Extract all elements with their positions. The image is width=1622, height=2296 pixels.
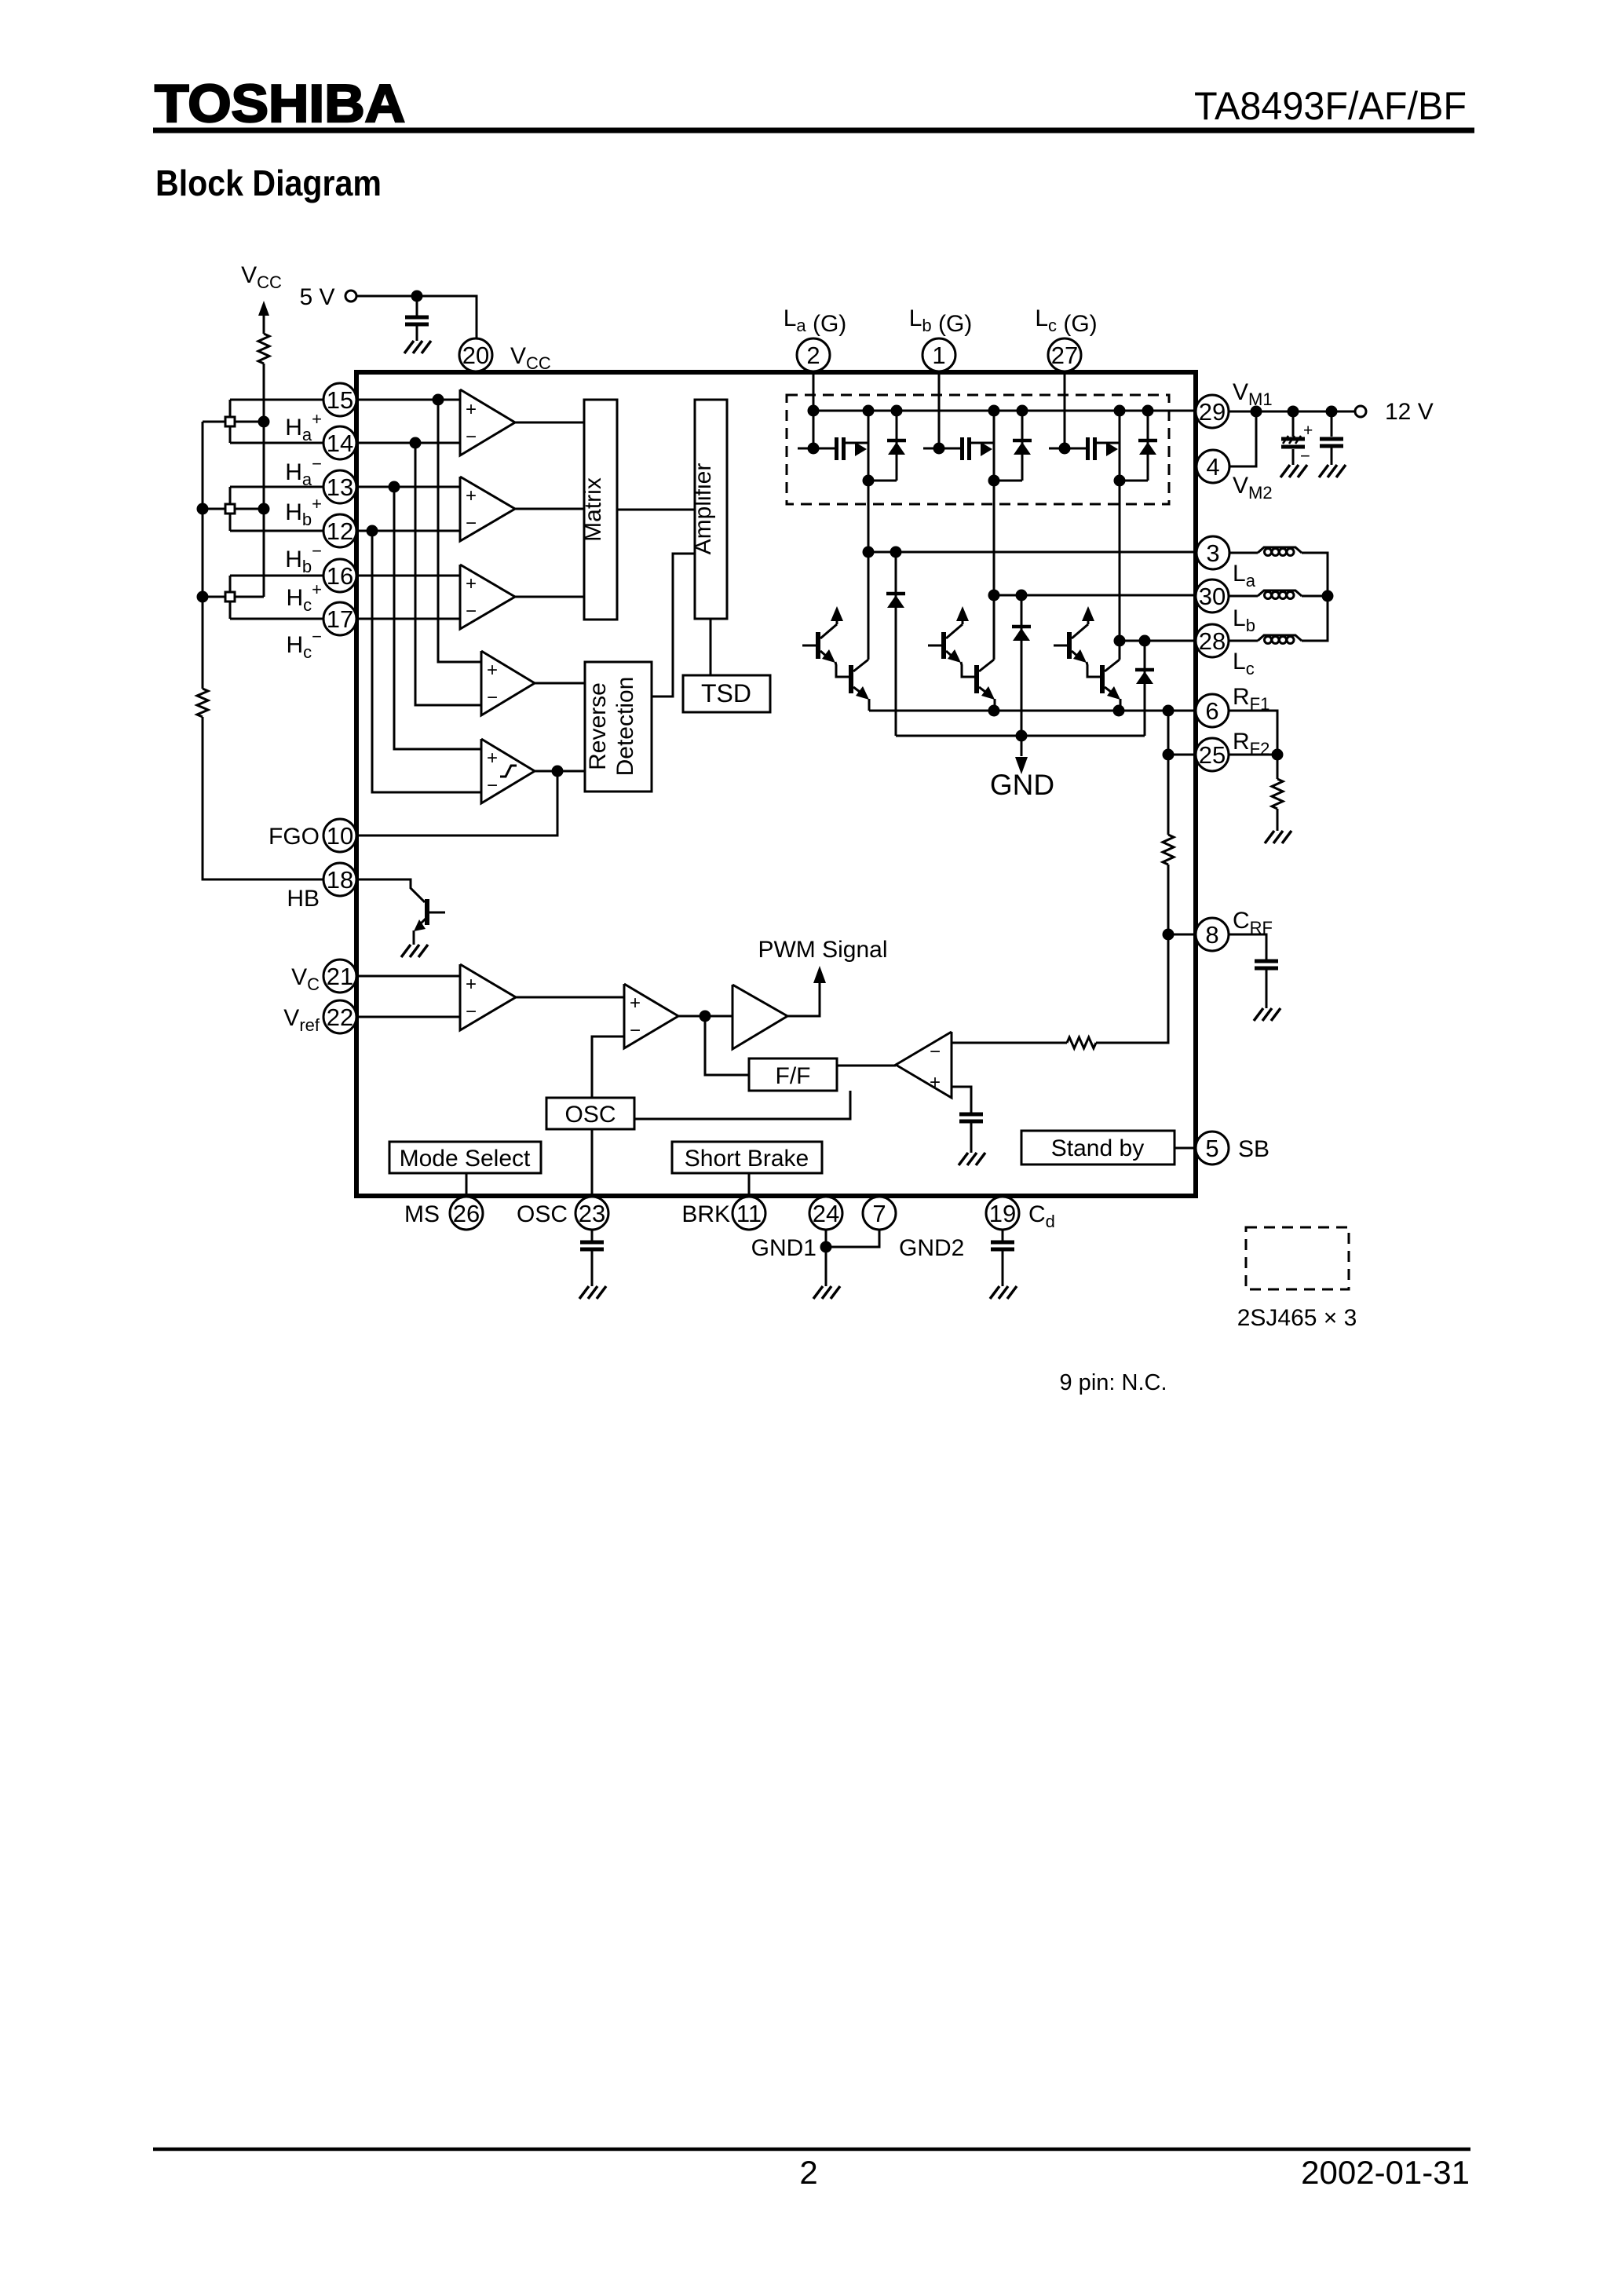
block Stand by [1021,1131,1174,1164]
diode D6 (Lc low-side) [1144,641,1146,736]
node dot Lc drain [1114,635,1126,647]
svg-text:FGO: FGO [269,824,320,850]
svg-text:−: − [930,1041,941,1062]
svg-text:Matrix: Matrix [580,477,606,542]
pin 30 [1196,579,1229,612]
node dot Lb diode [1016,590,1028,601]
svg-text:14: 14 [327,430,353,457]
svg-text:2: 2 [799,2154,817,2191]
terminal 12V [1355,406,1366,417]
wire V1 feed to comparator A4 + [438,400,481,662]
wire VCC bias vertical [263,422,265,597]
svg-text:20: 20 [462,342,489,369]
wire Matrix to Amplifier [617,509,695,511]
op-amp A1 (Hall comparator a) [460,389,515,455]
block Reverse Detection [585,662,652,792]
svg-text:HB: HB [287,886,320,912]
wire QA drain to node La [868,481,870,552]
svg-text:18: 18 [327,866,353,894]
wire Hc to left bias line [203,596,225,598]
diode D5 (Lb low-side) [1021,595,1023,736]
pin 27 [1048,338,1081,371]
inductor Lb (motor coil) [1258,590,1302,596]
svg-text:23: 23 [579,1200,605,1227]
diode D4 (La low-side) [895,552,897,736]
external MOSFET array dashed outline [787,395,1169,504]
wire V4 feed to comparator A5 - [372,531,481,792]
svg-text:+: + [487,748,498,769]
svg-text:MS: MS [404,1201,440,1227]
pin 19 [986,1197,1019,1230]
svg-text:Block Diagram: Block Diagram [155,163,382,203]
block OSC (oscillator) [546,1098,634,1129]
wire Ha to VCC bias line [235,421,264,423]
wire pin22 to error amp - [359,1016,460,1018]
wire OSC to pin 23 [591,1129,594,1197]
svg-text:29: 29 [1199,398,1226,426]
op-amp A4 (reverse detection comparator) [481,651,535,715]
svg-text:+: + [630,993,641,1014]
op-amp A5 (FG comparator with hysteresis) [481,739,535,803]
svg-text:8: 8 [1205,921,1218,949]
svg-text:10: 10 [327,822,353,850]
node dot feed V2 [410,437,422,449]
wire Ha outputs to pins 15/14 [230,399,323,401]
node dot QC2 emitter [1113,705,1125,717]
wire R5 to CRF node [1096,934,1168,1043]
wire A9 + input to C3 [952,1087,971,1113]
capacitor C6 (electrolytic, VM) [1292,411,1295,437]
node dot RF external [1272,749,1284,761]
wire buffer to PWM signal arrow [787,983,820,1016]
svg-text:9 pin: N.C.: 9 pin: N.C. [1060,1370,1167,1395]
node dot Lb drain [988,590,1000,601]
wire pin 25 line [1168,754,1196,756]
transistor QC2 (darlington output) [1087,662,1101,677]
node dot Lc diode [1139,635,1151,647]
wire GND node to ground [825,1247,827,1286]
pin 18 [323,863,356,896]
wire A1 output to Matrix [515,422,584,424]
pin 17 [323,602,356,635]
wire pin12 to comparator A2 - [359,530,460,532]
pin 25 [1196,738,1229,771]
svg-text:Short Brake: Short Brake [685,1146,809,1172]
block Amplifier [695,400,727,619]
svg-text:11: 11 [736,1200,762,1227]
pin 11 [732,1197,765,1230]
pin 24 [809,1197,842,1230]
node dot feed V3 [389,481,400,493]
hall sensor Hc (square) [229,576,232,592]
svg-text:2: 2 [806,342,820,369]
wire Stand by to pin 5 [1174,1147,1196,1150]
wire error amp to PWM comparator + [516,996,624,999]
svg-text:22: 22 [327,1004,353,1031]
op-amp A6 (error amplifier) [460,964,516,1030]
wire pin24 to ground node [825,1230,827,1247]
svg-text:Mode Select: Mode Select [400,1146,531,1172]
wire Lc coil to star point [1302,596,1328,641]
node dot GND1 [820,1241,832,1253]
wire pin16 to comparator A3 + [359,575,460,577]
svg-text:TSD: TSD [701,679,751,707]
svg-text:5: 5 [1205,1135,1218,1162]
node dot RF2 [1163,749,1174,761]
wire pin25 to RF resistor [1229,754,1277,756]
node dot left/Hb [197,503,209,515]
svg-text:+: + [466,399,477,420]
node dot PWM [700,1011,711,1022]
wire Hb outputs to pins 13/12 [230,486,323,488]
node dot CRF [1163,929,1174,941]
VCC arrow symbol [258,301,269,316]
block Matrix [584,400,617,620]
op-amp A3 (Hall comparator c) [460,565,515,629]
svg-text:24: 24 [813,1200,839,1227]
pin 10 [323,819,356,852]
terminal 5V [345,291,356,302]
ground [959,1153,985,1165]
capacitor C7 (VM bypass) [1331,411,1333,437]
ground [1319,465,1346,477]
wire R2 to pin 18 (HB) [203,717,323,879]
capacitor C5 (Cd) [991,1241,1014,1245]
node dot C7 [1326,406,1338,418]
GND arrow symbol [1021,736,1023,756]
wire node Lc to QC2 collector [1119,641,1121,660]
external transistor legend dashed box [1246,1227,1349,1289]
transistor QB2 (darlington output) [961,662,975,677]
wire Hc to VCC bias line [235,596,264,598]
inductor La (motor coil) [1258,547,1302,553]
wire A7 output node [678,1015,732,1018]
transistor QB1 (darlington input) [928,645,942,647]
block TSD [683,675,770,712]
svg-text:6: 6 [1205,697,1218,725]
wire A2 output to Matrix [515,508,584,510]
svg-text:OSC: OSC [564,1102,616,1128]
svg-text:−: − [630,1020,641,1041]
wire F/F to comparator A9 output [837,1065,896,1067]
body diode DB of QB [1021,411,1024,481]
node dot C6 [1288,406,1299,418]
ground [813,1286,840,1299]
pin 3 [1196,536,1229,569]
svg-text:BRK: BRK [681,1201,730,1227]
svg-text:12: 12 [327,517,353,545]
svg-text:19: 19 [989,1200,1016,1227]
pin 20 [459,338,492,371]
block Short Brake [672,1142,822,1173]
svg-text:−: − [1300,446,1310,466]
pin 7 [863,1197,896,1230]
pin 1 [922,338,955,371]
wire Lb coil to star point [1302,595,1328,598]
wire pin15 to comparator A1 + [359,399,460,401]
svg-text:+: + [466,485,477,506]
hall sensor Hb (square) [229,487,232,504]
node dot 5V/C1 [411,291,423,302]
wire pin17 to comparator A3 - [359,618,460,620]
wire FGO node to pin 10 [359,771,557,835]
node Lc wire to pin 28 [1120,640,1196,642]
wire pin8 to C8 [1229,934,1266,960]
resistor R6 (internal RF divider) [1163,835,1174,865]
pin 12 [323,514,356,547]
svg-text:2002-01-31: 2002-01-31 [1301,2154,1470,2191]
svg-text:Detection: Detection [612,677,638,777]
resistor R7 (RF sense) [1272,779,1283,809]
pin 23 [575,1197,608,1230]
block F/F (flip-flop) [749,1058,837,1091]
op-amp A7 (PWM comparator) [624,984,678,1048]
wire left bias vertical [202,422,204,689]
svg-text:5 V: 5 V [299,284,334,310]
svg-text:15: 15 [327,386,353,414]
node dot VM2 tap [1251,406,1262,418]
node dot La diode [890,547,902,558]
wire pin19 to C5 [1002,1230,1004,1241]
svg-text:Reverse: Reverse [585,682,611,770]
GND rail wire (low-side diodes) [896,735,1145,737]
svg-text:13: 13 [327,473,353,501]
VM1 bus wire [814,410,1196,412]
wire pin21 to error amp + [359,975,460,978]
hall sensor Ha (square) [229,400,232,417]
IC body outline [356,372,1196,1196]
wire R6 to CRF node [1167,865,1170,934]
wire Amplifier to TSD [710,619,712,675]
wire Ha to left bias line [203,421,225,423]
ground [1254,1008,1280,1021]
pin 4 [1196,450,1229,483]
wire node Lb to QB2 collector [993,595,995,660]
ground [401,945,428,957]
ground [1265,831,1291,843]
wire VCC resistor to Hall row A [263,364,265,422]
block Mode Select [389,1142,541,1173]
svg-text:17: 17 [327,605,353,633]
wire A4 output to Reverse Detection [535,682,585,685]
svg-text:25: 25 [1199,741,1226,769]
wire RF node to pin 25 line [1167,711,1170,755]
wire QB drain to node Lb [993,481,995,595]
svg-text:SB: SB [1238,1136,1269,1162]
svg-text:−: − [466,426,477,448]
svg-text:−: − [487,775,498,796]
wire Short Brake to pin 11 [748,1173,751,1197]
pin 2 [797,338,830,371]
wire A9 - input to RF sense [952,1042,1067,1044]
wire pin30 to inductor Lb [1229,595,1258,598]
capacitor C8 (CRF) [1255,960,1278,963]
svg-text:16: 16 [327,562,353,590]
node La wire to pin 3 [868,551,1196,554]
op-amp A9 (current limit comparator) [896,1032,952,1098]
wire Hb to VCC bias line [235,508,264,510]
svg-text:21: 21 [327,963,353,990]
ground [990,1286,1017,1299]
svg-text:F/F: F/F [776,1063,811,1089]
svg-text:12 V: 12 V [1385,399,1434,425]
node dot QB2 emitter [988,705,1000,717]
svg-text:4: 4 [1206,453,1219,481]
pin 26 [450,1197,483,1230]
svg-text:26: 26 [453,1200,480,1227]
pin 28 [1196,624,1229,657]
svg-text:TOSHIBA: TOSHIBA [155,74,405,133]
svg-text:3: 3 [1206,539,1219,567]
svg-text:27: 27 [1051,342,1078,369]
svg-text:OSC: OSC [517,1201,568,1227]
wire A3 output to Matrix [515,596,584,598]
svg-text:1: 1 [932,342,945,369]
wire PWM node to F/F [705,1016,749,1075]
svg-text:+: + [487,660,498,681]
wire pin7 to ground node [826,1230,879,1247]
emitter rail wire to pin 6 [869,710,1196,712]
pin 15 [323,383,356,416]
svg-text:30: 30 [1199,583,1226,610]
wire Hb to left bias line [203,508,225,510]
wire VM2 tap to pin 4 [1229,411,1256,466]
wire QC drain to node Lc [1119,481,1121,641]
MOSFET QC (external 2SJ465 P-channel) [1049,448,1087,450]
wire pin14 to comparator A1 - [359,442,460,444]
wire La coil to star point [1302,553,1328,596]
transistor QA1 (darlington input) [802,645,816,647]
node Lb wire to pin 30 [994,594,1196,597]
wire pin1 to QB gate [938,373,941,448]
wire OSC output to F/F [634,1091,850,1119]
wire V3 feed to comparator A5 + [394,487,481,749]
node dot FGO [552,766,564,777]
node dot feed V1 [433,394,444,406]
node dot GND rail [1016,730,1028,742]
buffer A8 (PWM output buffer) [732,985,787,1049]
wire CRF node to pin 8 [1168,934,1196,936]
resistor R5 (sense filter) [1067,1037,1096,1048]
wire Hc outputs to pins 16/17 [230,575,323,577]
body diode DA of QA [896,411,898,481]
svg-text:Stand by: Stand by [1051,1135,1144,1161]
wire Reverse Detection to Amplifier [652,554,695,696]
wire V2 feed to comparator A4 - [415,443,481,705]
wire pin18 to transistor Q7 base [359,879,425,902]
node dot La drain [863,547,875,558]
wire C1 to ground [416,324,418,341]
MOSFET QA (external 2SJ465 P-channel) [798,448,835,450]
pin 22 [323,1000,356,1033]
svg-text:GND1: GND1 [751,1235,816,1261]
resistor R1 (Hall bias to VCC) [258,334,269,364]
header rule [153,128,1474,133]
svg-text:−: − [466,1001,477,1022]
node dot VCC/Hb [258,503,270,515]
wire A5 output to Reverse Detection [535,770,585,773]
pin 6 [1196,694,1229,727]
node dot RF sense [1163,705,1174,717]
svg-text:−: − [466,513,477,534]
gate node dot (pin wire) for QB [933,443,945,455]
wire pin23 to C4 [591,1230,594,1241]
svg-text:−: − [487,687,498,708]
svg-text:TA8493F/AF/BF: TA8493F/AF/BF [1194,84,1467,128]
node dot bus/pin2 [808,405,820,417]
svg-text:GND: GND [990,769,1054,801]
svg-text:+: + [930,1072,941,1093]
capacitor C3 (reference) [959,1113,983,1117]
svg-text:+: + [466,573,477,594]
capacitor C4 (OSC timing) [580,1241,604,1245]
svg-text:PWM Signal: PWM Signal [758,937,887,963]
pin 5 [1196,1132,1229,1164]
wire pin3 to inductor La [1229,552,1258,554]
gate node dot (pin wire) for QA [808,443,820,455]
pin 13 [323,470,356,503]
wire RF2 node down to R6 [1167,755,1170,835]
body diode DC of QC [1147,411,1149,481]
wire R7 to ground [1277,809,1279,831]
node dot left/Hc [197,591,209,603]
wire pin27 to QC gate [1064,373,1066,448]
resistor R2 (HB bias) [197,689,208,717]
node dot feed V4 [367,525,378,537]
wire 5V to pin 20 [356,295,417,298]
capacitor C1 (5V decoupling) [416,296,418,317]
wire Mode Select to pin 26 [466,1173,468,1197]
op-amp A2 (Hall comparator b) [460,477,515,541]
svg-text:2SJ465 × 3: 2SJ465 × 3 [1237,1305,1357,1331]
svg-text:28: 28 [1199,627,1226,655]
wire OSC to PWM comparator - [592,1036,624,1098]
ground [579,1286,606,1299]
ground [404,341,431,353]
svg-text:Amplifier: Amplifier [690,463,716,555]
wire pin6 to RF resistor [1229,711,1277,755]
transistor Q7 (HB clamp) [425,899,429,925]
transistor QC1 (darlington input) [1054,645,1068,647]
node dot star point [1322,590,1334,602]
pin 16 [323,559,356,592]
svg-text:+: + [1303,422,1313,440]
ground [1280,465,1307,477]
transistor QA2 (darlington output) [835,662,849,677]
MOSFET QB (external 2SJ465 P-channel) [923,448,961,450]
pin 29 [1196,395,1229,428]
wire pin13 to comparator A2 + [359,486,460,488]
wire RF node down [1277,755,1279,779]
svg-text:+: + [466,974,477,995]
inductor Lc (motor coil) [1258,635,1302,641]
wire pin2 to QA gate [813,373,815,448]
pin 21 [323,960,356,993]
pin 14 [323,426,356,459]
pin 8 [1196,918,1229,951]
wire pin29 to 12V terminal [1229,411,1355,413]
footer rule [153,2148,1470,2152]
gate node dot (pin wire) for QC [1059,443,1071,455]
wire pin28 to inductor Lc [1229,640,1258,642]
svg-text:GND2: GND2 [899,1235,964,1261]
node dot VCC/Ha [258,416,270,428]
wire node La to QA2 collector [868,552,870,660]
svg-text:−: − [466,601,477,622]
svg-text:7: 7 [872,1200,886,1227]
